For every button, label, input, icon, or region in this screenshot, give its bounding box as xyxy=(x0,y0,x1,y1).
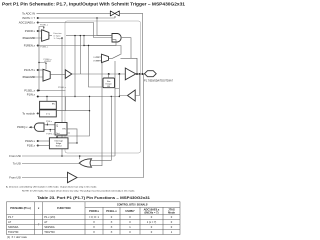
node direction branch 1 xyxy=(80,35,81,36)
svg-text:P1SEL.x: P1SEL.x xyxy=(24,89,35,93)
wire buffer out xyxy=(77,74,144,178)
wire IRQ arrow xyxy=(31,126,35,128)
svg-text:Mode: Mode xyxy=(168,210,175,214)
wire bus keeper to pad xyxy=(108,74,110,78)
buffer B2 (USI out) xyxy=(68,172,78,182)
pad logic box xyxy=(65,21,141,153)
table body texts xyxy=(8,215,173,234)
switch control stub xyxy=(114,16,116,18)
svg-text:To USI: To USI xyxy=(13,162,21,166)
svg-text:Interrupt: Interrupt xyxy=(55,139,64,142)
svg-text:USIPE7: USIPE7 xyxy=(125,209,135,213)
svg-text:1 (x = 7): 1 (x = 7) xyxy=(147,220,157,224)
svg-text:P1IN.x: P1IN.x xyxy=(27,93,36,97)
svg-text:P1OUT.x: P1OUT.x xyxy=(24,68,36,72)
wire U1 output xyxy=(122,38,131,58)
node P1IN xyxy=(37,96,39,98)
node ren-dir cross xyxy=(83,45,84,46)
vertical lines xyxy=(34,202,36,235)
wire From USI bottom 2 xyxy=(22,177,68,179)
interrupt edge select box xyxy=(49,138,68,149)
svg-text:A7: A7 xyxy=(8,220,12,224)
svg-text:P1SEL.x: P1SEL.x xyxy=(40,46,48,48)
svg-text:X: X xyxy=(93,230,95,234)
svg-text:P1REN.x: P1REN.x xyxy=(24,44,36,48)
svg-text:(INCHx = 7): (INCHx = 7) xyxy=(145,210,159,214)
svg-text:SDI/SDA: SDI/SDA xyxy=(8,225,19,229)
svg-text:From USI: From USI xyxy=(9,154,21,158)
wire edge in2 xyxy=(37,145,50,147)
svg-text:FUNCTION: FUNCTION xyxy=(57,206,71,210)
wire latch D from schmitt line xyxy=(47,97,66,111)
wire USI riser xyxy=(61,38,63,156)
wire INCHx xyxy=(37,16,116,36)
node direction branch 2 xyxy=(83,35,84,36)
svg-text:From USI: From USI xyxy=(9,176,21,180)
wire driver to pad xyxy=(72,73,126,75)
svg-text:I: 0; O: 1: I: 0; O: 1 xyxy=(89,215,100,219)
input latch EN-D (top) xyxy=(40,101,57,109)
table header texts xyxy=(10,203,175,215)
svg-text:Table 23. Port P1 (P1.7) Pin F: Table 23. Port P1 (P1.7) Pin Functions –… xyxy=(37,196,150,200)
svg-text:1: Output: 1: Output xyxy=(54,37,63,40)
svg-text:P1IRQ.x: P1IRQ.x xyxy=(17,125,28,129)
wire pad to schmitt xyxy=(135,74,139,96)
svg-text:P1SEL.x: P1SEL.x xyxy=(58,87,66,89)
node To module xyxy=(37,112,39,114)
analog switch (bowtie) xyxy=(110,11,119,16)
node P1SEL riser xyxy=(38,90,39,91)
node P1OUT xyxy=(37,69,39,71)
wire From USI to mux xyxy=(22,37,42,39)
wire P1IE xyxy=(44,123,55,125)
svg-text:P1IFG.x: P1IFG.x xyxy=(46,134,54,136)
svg-text:To module: To module xyxy=(22,112,35,116)
schmitt trigger input buffer xyxy=(128,90,136,101)
wire driver2 to pad xyxy=(136,73,145,75)
svg-text:P1SEL.x: P1SEL.x xyxy=(106,209,117,213)
wire U1 third input xyxy=(84,40,116,87)
node pad-pull junction xyxy=(136,73,138,75)
svg-text:NOTE: In USI mode, the output: NOTE: In USI mode, the output driver dri… xyxy=(22,190,135,193)
wire To ADC xyxy=(37,12,112,14)
svg-text:CONTROL BITS / SIGNALS¹: CONTROL BITS / SIGNALS¹ xyxy=(117,203,149,207)
node ADC10AE0 xyxy=(37,22,39,24)
svg-text:INCHx = 7: INCHx = 7 xyxy=(22,16,35,20)
svg-text:Select: Select xyxy=(56,145,62,148)
or-gate U3 (to USI) xyxy=(79,159,91,167)
node P1REN xyxy=(37,45,39,47)
svg-text:P1.x (I/O): P1.x (I/O) xyxy=(44,215,55,219)
horizontal lines xyxy=(85,206,180,208)
node pad-ADC junction xyxy=(142,73,144,75)
svg-text:ADC10AE0.x: ADC10AE0.x xyxy=(19,21,36,25)
svg-text:TDO/TDI: TDO/TDI xyxy=(44,230,55,234)
wire DVSS stub xyxy=(96,57,102,61)
svg-text:X: X xyxy=(93,220,95,224)
wire P1SEL riser xyxy=(37,27,66,91)
svg-text:P1IES.x: P1IES.x xyxy=(25,139,36,143)
wire P1OUT to mux xyxy=(37,69,44,71)
wire direction out xyxy=(49,36,112,74)
table grid xyxy=(7,202,181,235)
svg-text:P1IE.x: P1IE.x xyxy=(27,144,36,148)
wire edge select out xyxy=(68,142,77,144)
svg-text:X: X xyxy=(111,220,113,224)
svg-text:EN: EN xyxy=(63,129,66,131)
resistor switch xyxy=(109,54,138,74)
svg-text:Set: Set xyxy=(56,132,60,135)
and-gate U1 (analog enable) xyxy=(112,34,121,43)
mux M2 (output) xyxy=(43,69,50,81)
interrupt flag flop xyxy=(55,123,67,136)
svg-text:X: X xyxy=(111,230,113,234)
wire from switch to pad column xyxy=(119,13,143,74)
svg-text:P1.7/SDI/SDA/TDO/TDI/A7: P1.7/SDI/SDA/TDO/TDI/A7 xyxy=(144,80,174,83)
svg-text:P1DIR.x: P1DIR.x xyxy=(89,209,99,213)
pad driver xyxy=(125,68,136,80)
node M2 select xyxy=(45,63,46,64)
wire From USI bottom 1 xyxy=(22,155,115,157)
wire To module xyxy=(37,112,40,114)
svg-text:(1) X = don’t care: (1) X = don’t care xyxy=(7,236,28,239)
input latch (bottom) xyxy=(40,110,57,117)
node P1SEL xyxy=(37,90,39,92)
node schmitt out xyxy=(119,96,120,97)
svg-text:Q: Q xyxy=(56,125,58,127)
wire M2 select xyxy=(45,63,47,69)
node pad-schmitt junction xyxy=(139,73,141,75)
wire bus vertical x75 xyxy=(74,36,76,97)
wire P1IES xyxy=(37,140,50,142)
node pad-EN junction xyxy=(118,73,120,75)
wire flop EN riser xyxy=(67,129,77,143)
svg-text:P1.7: P1.7 xyxy=(8,215,14,219)
svg-text:A. Direction controlled by USI: A. Direction controlled by USI module in… xyxy=(6,185,97,188)
svg-text:Port P1 Pin Schematic: P1.7, I: Port P1 Pin Schematic: P1.7, Input/Outpu… xyxy=(2,2,186,7)
svg-text:X: X xyxy=(111,225,113,229)
wire From USI to mux2 xyxy=(22,76,43,78)
node M1 select xyxy=(43,27,44,28)
pad P1.7 hexagon xyxy=(145,71,157,77)
mux M1 (direction) xyxy=(42,30,49,42)
svg-text:SDI/SDA: SDI/SDA xyxy=(44,225,55,229)
wire bus keeper EN xyxy=(115,74,120,97)
table outer border xyxy=(7,202,181,235)
svg-text:X: X xyxy=(93,225,95,229)
wire flop Q to gate xyxy=(44,130,55,132)
bus keeper box xyxy=(103,78,115,88)
wire ADC10AE0 xyxy=(37,23,113,38)
wire schmitt out / P1IN row xyxy=(37,96,128,97)
wire P1DIR to mux xyxy=(37,30,42,32)
wire U3 inputs xyxy=(80,63,112,166)
svg-text:D Q: D Q xyxy=(46,114,50,116)
svg-text:P1IE.x: P1IE.x xyxy=(46,121,52,123)
svg-text:To ADC IN: To ADC IN xyxy=(22,11,35,15)
mux M3 (pull direction) xyxy=(102,54,109,62)
node INCHx xyxy=(37,17,39,19)
wire To USI xyxy=(22,163,79,165)
wire M3 select riser xyxy=(114,61,116,156)
wire P1REN xyxy=(37,46,122,55)
node P1IES xyxy=(37,140,39,142)
svg-text:PIN NAME (P1.x): PIN NAME (P1.x) xyxy=(10,206,31,210)
node INCHx branch xyxy=(96,17,97,18)
output driver buffer xyxy=(65,70,72,79)
svg-text:P1DIR.x: P1DIR.x xyxy=(25,29,36,33)
wire mux2 to driver xyxy=(50,74,65,76)
svg-text:TDO/TDI: TDO/TDI xyxy=(8,230,19,234)
wire M1 select xyxy=(43,27,45,30)
node P1DIR xyxy=(37,30,39,32)
svg-text:A7: A7 xyxy=(44,220,48,224)
wire latch right riser xyxy=(56,97,89,138)
node pad-keeper junction xyxy=(108,73,110,75)
node edge in2 xyxy=(37,145,39,147)
and-gate U2 (interrupt) xyxy=(34,123,44,131)
